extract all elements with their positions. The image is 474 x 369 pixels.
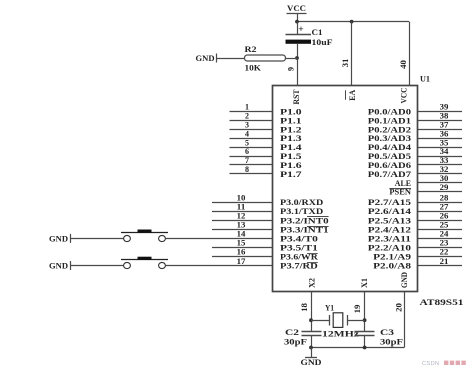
wire pin18 to crystal <box>311 320 329 322</box>
svg-text:AT89S51: AT89S51 <box>420 297 464 307</box>
pin 39 wire P0.0/AD0 <box>418 103 462 112</box>
svg-text:5: 5 <box>245 138 249 147</box>
pin label EA (overbar) <box>346 90 358 101</box>
svg-text:36: 36 <box>440 129 449 138</box>
pin 27 wire P2.6/A14 <box>418 202 462 211</box>
pin 32 wire P0.7/AD7 <box>418 165 462 174</box>
wire R2 to junction <box>286 58 298 60</box>
ground GND (S1 pin14) <box>49 234 71 244</box>
pin 37 wire P0.2/AD2 <box>418 121 462 130</box>
pin label P3.4/T0 <box>280 233 318 243</box>
svg-text:3: 3 <box>245 121 249 130</box>
wire C3 to rail <box>364 335 366 347</box>
pin 8 wire P1.7 <box>230 165 273 174</box>
svg-text:12MHz: 12MHz <box>322 329 359 339</box>
wire RST (pin 9) <box>297 58 299 85</box>
svg-text:14: 14 <box>237 230 246 239</box>
svg-text:1: 1 <box>245 103 249 112</box>
svg-text:GND: GND <box>49 234 68 243</box>
svg-text:30pF: 30pF <box>284 337 307 347</box>
svg-text:21: 21 <box>440 257 449 266</box>
svg-text:P2.0/A8: P2.0/A8 <box>373 261 412 271</box>
crystal Y1 12MHz <box>325 303 348 328</box>
capacitor C3 30pF <box>355 327 404 347</box>
wire top rail <box>297 21 409 23</box>
capacitor C2 30pF <box>284 327 322 347</box>
svg-text:35: 35 <box>440 138 449 147</box>
svg-text:C3: C3 <box>380 327 394 337</box>
resistor R2 10K <box>245 44 286 73</box>
ground GND (bottom) <box>301 348 322 368</box>
svg-text:X2: X2 <box>308 278 317 288</box>
svg-text:39: 39 <box>440 103 449 112</box>
svg-text:26: 26 <box>440 212 449 221</box>
svg-text:C1: C1 <box>312 27 323 37</box>
svg-text:Y1: Y1 <box>325 303 334 313</box>
pin 38 wire P0.1/AD1 <box>418 112 462 121</box>
wire GND to R2 <box>217 58 245 60</box>
svg-text:EA: EA <box>348 90 357 101</box>
svg-text:GND: GND <box>49 262 68 271</box>
wire VCC to top rail <box>297 13 299 22</box>
pin 12 wire <box>212 212 272 221</box>
pin 4 wire P1.3 <box>230 129 273 138</box>
pin 6 wire P1.5 <box>230 147 273 156</box>
wire X2 pin 18 <box>311 292 313 331</box>
watermark CSDN <box>422 361 466 367</box>
svg-text:10K: 10K <box>245 63 262 73</box>
svg-text:33: 33 <box>440 156 449 165</box>
svg-text:+: + <box>298 25 303 35</box>
svg-text:9: 9 <box>287 67 296 71</box>
pushbutton S1 pin14 <box>121 230 168 242</box>
pin 25 wire P2.4/A12 <box>418 221 462 230</box>
pin label P3.5/T1 <box>280 242 318 252</box>
pin 35 wire P0.4/AD4 <box>418 138 462 147</box>
wire GND pin 20 <box>404 292 406 348</box>
pin 16 wire <box>212 248 272 257</box>
svg-text:23: 23 <box>440 239 449 248</box>
pin label P3.1/TXD <box>280 206 323 216</box>
svg-text:7: 7 <box>245 156 249 165</box>
node junction R2/C1/RST <box>295 56 299 60</box>
pin 24 wire P2.3/A11 <box>418 230 462 239</box>
node junction rail/GND <box>309 346 313 350</box>
pin label P3.3/INT1 <box>280 224 329 234</box>
pin label P3.7/RD <box>280 261 318 271</box>
wire crystal to pin19 <box>347 320 365 322</box>
svg-text:37: 37 <box>440 121 449 130</box>
pin 21 wire P2.0/A8 <box>418 257 462 266</box>
pin 15 wire <box>212 239 272 248</box>
wire rail to C1 <box>297 22 299 35</box>
svg-text:25: 25 <box>440 221 449 230</box>
svg-text:20: 20 <box>395 303 404 312</box>
pin label P3.2/INT0 <box>280 215 329 225</box>
ground GND (S2 pin17) <box>49 261 71 271</box>
svg-text:30pF: 30pF <box>380 337 403 347</box>
pin label P3.6/WR <box>280 252 319 262</box>
ground GND (R2) <box>196 54 217 64</box>
wire GND to S1 pin14 <box>70 238 123 240</box>
pin 36 wire P0.3/AD3 <box>418 129 462 138</box>
svg-text:6: 6 <box>245 147 249 156</box>
svg-text:16: 16 <box>237 248 246 257</box>
svg-text:GND: GND <box>400 272 409 288</box>
svg-text:8: 8 <box>245 165 249 174</box>
svg-text:28: 28 <box>440 193 449 202</box>
svg-text:U1: U1 <box>420 74 430 84</box>
svg-text:4: 4 <box>245 129 249 138</box>
svg-text:CSDN: CSDN <box>422 361 439 367</box>
pin 28 wire P2.7/A15 <box>418 193 462 202</box>
svg-text:22: 22 <box>440 248 449 257</box>
pin 29 wire PSEN <box>418 183 462 192</box>
svg-text:27: 27 <box>440 202 449 211</box>
pin 10 wire <box>212 193 272 202</box>
pin 1 wire P1.0 <box>230 103 273 112</box>
svg-text:15: 15 <box>237 239 246 248</box>
svg-text:VCC: VCC <box>287 3 306 13</box>
pin 30 wire ALE <box>418 174 462 183</box>
svg-text:GND: GND <box>301 357 322 367</box>
svg-text:P1.7: P1.7 <box>280 169 303 179</box>
wire ground rail <box>311 347 404 349</box>
wire pin 40 VCC drop <box>409 22 411 85</box>
pin 22 wire P2.1/A9 <box>418 248 462 257</box>
svg-text:40: 40 <box>399 60 408 69</box>
pin 7 wire P1.6 <box>230 156 273 165</box>
svg-text:2: 2 <box>245 112 249 121</box>
pin 11 wire <box>212 202 272 211</box>
wire C1 to RST junction <box>297 44 299 58</box>
svg-text:11: 11 <box>237 202 246 211</box>
svg-text:31: 31 <box>341 59 350 68</box>
pin label P3.0/RXD <box>280 197 323 207</box>
wire GND to S2 pin17 <box>70 265 123 267</box>
pin 3 wire P1.2 <box>230 121 273 130</box>
svg-text:10: 10 <box>237 193 246 202</box>
wire X1 pin 19 <box>364 292 366 331</box>
svg-text:18: 18 <box>300 303 309 312</box>
svg-text:RST: RST <box>292 89 301 105</box>
wire S1 pin14 to chip <box>166 238 273 240</box>
pin 26 wire P2.5/A13 <box>418 212 462 221</box>
pin 13 wire <box>212 221 272 230</box>
pin 34 wire P0.5/AD5 <box>418 147 462 156</box>
svg-text:VCC: VCC <box>400 87 409 103</box>
svg-text:GND: GND <box>196 54 215 63</box>
pushbutton S2 pin17 <box>121 257 168 269</box>
pin label PSEN (overbar) <box>389 187 411 197</box>
pin 33 wire P0.6/AD6 <box>418 156 462 165</box>
svg-text:12: 12 <box>237 212 246 221</box>
svg-text:C2: C2 <box>285 327 299 337</box>
wire S2 pin17 to chip <box>166 265 273 267</box>
node junction rail/C3 <box>363 346 367 350</box>
svg-text:13: 13 <box>237 221 246 230</box>
chip U1 AT89S51 body <box>273 86 418 292</box>
node junction crystal right <box>363 318 367 322</box>
pin 5 wire P1.4 <box>230 138 273 147</box>
svg-text:R2: R2 <box>245 44 257 54</box>
svg-text:10uF: 10uF <box>312 37 333 47</box>
capacitor C1 10uF <box>286 25 333 47</box>
node junction crystal left <box>309 318 313 322</box>
wire EA (pin 31) <box>351 22 353 85</box>
svg-text:24: 24 <box>440 230 449 239</box>
svg-text:17: 17 <box>237 257 246 266</box>
svg-text:38: 38 <box>440 112 449 121</box>
power VCC <box>287 3 307 14</box>
wire C2 to rail <box>311 335 313 347</box>
svg-text:29: 29 <box>440 183 449 192</box>
svg-text:32: 32 <box>440 165 449 174</box>
svg-text:34: 34 <box>440 147 449 156</box>
pin 2 wire P1.1 <box>230 112 273 121</box>
svg-text:X1: X1 <box>360 278 369 288</box>
svg-text:30: 30 <box>440 174 449 183</box>
node junction EA rail <box>350 20 354 24</box>
node junction VCC/C1 <box>295 20 299 24</box>
svg-text:19: 19 <box>353 305 362 314</box>
pin 23 wire P2.2/A10 <box>418 239 462 248</box>
